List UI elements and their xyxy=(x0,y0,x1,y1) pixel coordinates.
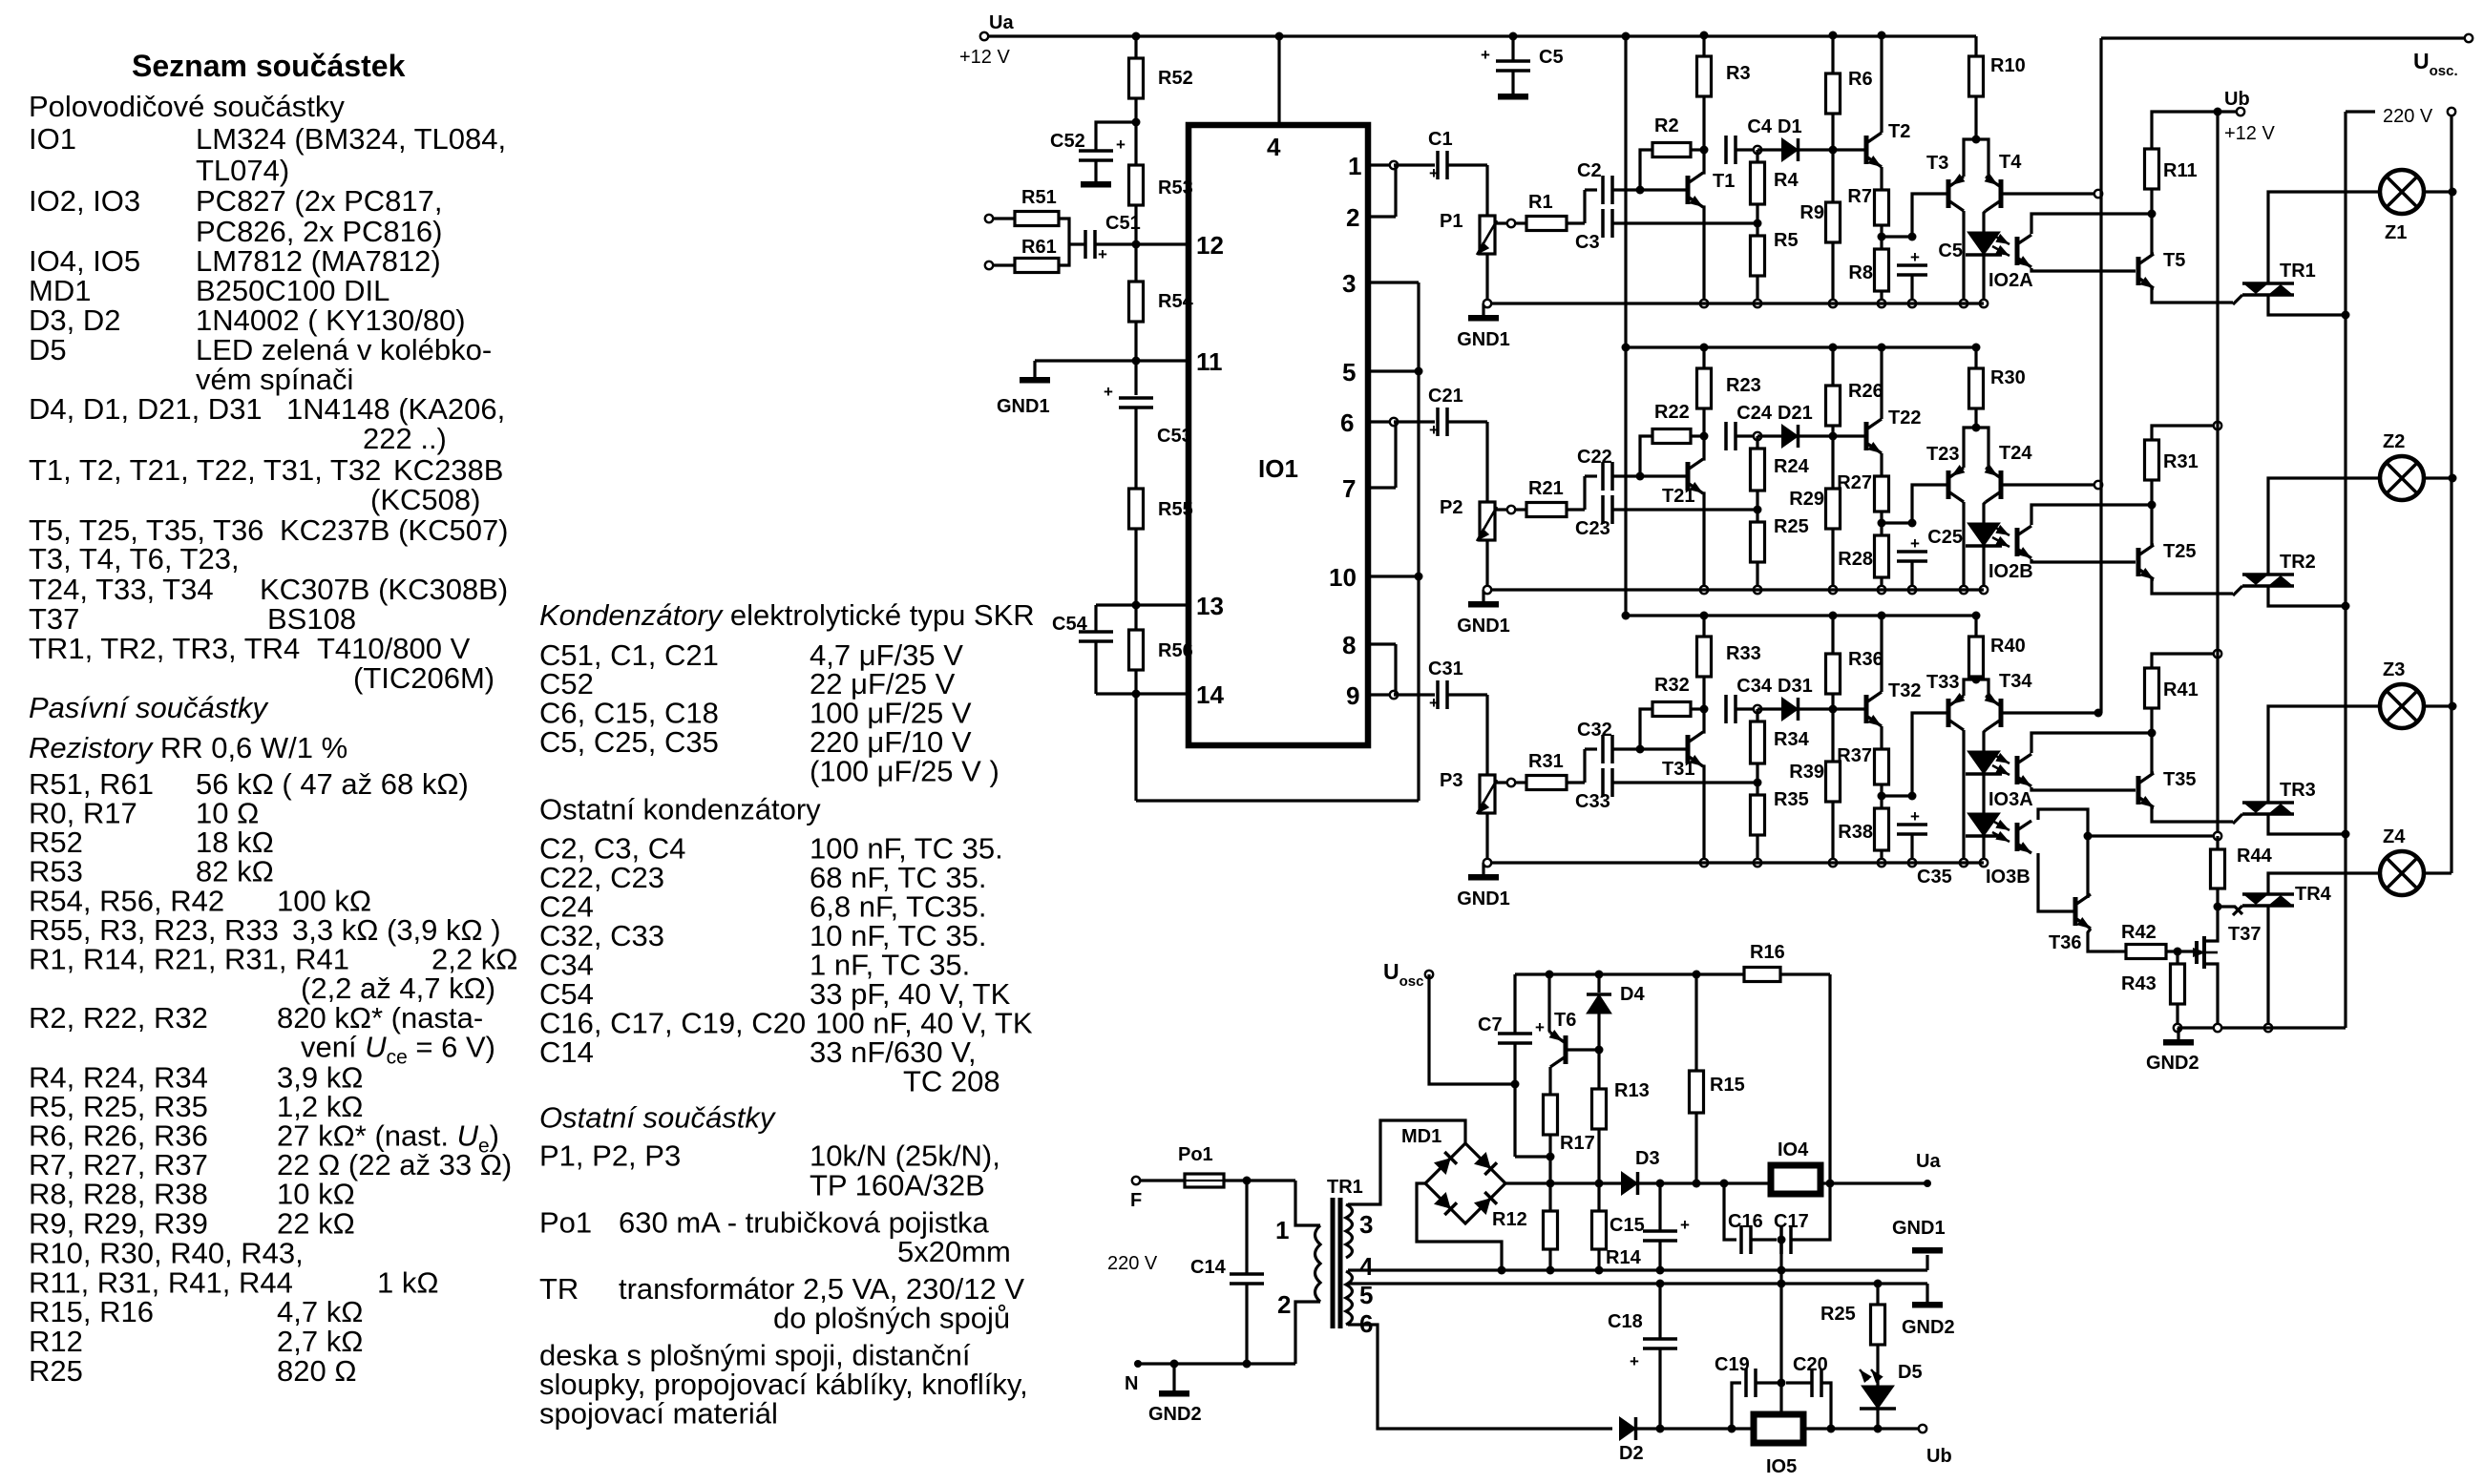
resistor R31 xyxy=(1507,779,1515,786)
svg-text:10k/N (25k/N),: 10k/N (25k/N), xyxy=(810,1139,1000,1173)
svg-text:T37: T37 xyxy=(29,602,79,636)
svg-text:+: + xyxy=(1429,694,1439,712)
terminal 220V xyxy=(2448,108,2455,115)
resistor R56 xyxy=(1129,630,1144,670)
svg-text:C22: C22 xyxy=(1577,447,1612,468)
resistor R43 xyxy=(2171,964,2185,1004)
svg-text:KC238B: KC238B xyxy=(393,453,503,487)
capacitor C33 xyxy=(1601,768,1605,797)
svg-text:Polovodičové součástky: Polovodičové součástky xyxy=(29,90,345,123)
svg-text:P1: P1 xyxy=(1440,211,1462,232)
triac TR2 xyxy=(2242,573,2294,576)
svg-text:GND1: GND1 xyxy=(1457,616,1510,637)
svg-text:C4: C4 xyxy=(1747,116,1772,137)
resistor R31 xyxy=(2145,440,2159,480)
wire triac top to lamp Z1 xyxy=(2268,192,2380,283)
wire right lamp bus xyxy=(2450,115,2452,873)
svg-text:14: 14 xyxy=(1196,680,1224,709)
svg-text:P1, P2, P3: P1, P2, P3 xyxy=(539,1139,681,1173)
transistor T3 xyxy=(1946,179,1951,208)
wire channel bottom rail ch2 xyxy=(1483,588,1984,591)
svg-text:T37: T37 xyxy=(2228,924,2261,945)
svg-text:C14: C14 xyxy=(539,1035,594,1069)
svg-text:Pasívní součástky: Pasívní součástky xyxy=(29,691,269,724)
resistor R30 xyxy=(1974,347,1977,368)
transistor T6 (PNP) xyxy=(1546,971,1554,979)
resistor R23 xyxy=(1702,347,1705,368)
capacitor C2 xyxy=(1583,190,1586,223)
capacitor C32 xyxy=(1583,749,1586,783)
svg-text:TR2: TR2 xyxy=(2280,552,2316,573)
capacitor C1 xyxy=(1436,151,1440,179)
svg-text:9: 9 xyxy=(1346,681,1359,710)
wire IO3B emitter to T36 base xyxy=(2038,853,2073,911)
wire lamp Z2 to right bus xyxy=(2424,476,2452,479)
wire secondary pin3 to MD1 xyxy=(1348,1120,1465,1204)
LED of optocoupler IO3B xyxy=(1967,813,2000,836)
svg-text:1N4148 (KA206,: 1N4148 (KA206, xyxy=(286,392,505,426)
resistor R35 xyxy=(1751,795,1765,835)
svg-text:BS108: BS108 xyxy=(267,602,356,636)
resistor R1 xyxy=(1507,219,1515,227)
svg-text:10 kΩ: 10 kΩ xyxy=(277,1178,355,1211)
svg-text:KC307B (KC308B): KC307B (KC308B) xyxy=(260,573,508,606)
svg-text:R17: R17 xyxy=(1560,1133,1595,1154)
svg-text:8: 8 xyxy=(1342,631,1356,659)
svg-text:T410/800 V: T410/800 V xyxy=(317,632,471,665)
resistor R2 xyxy=(1640,150,1652,190)
wire opto collector ch1 xyxy=(2031,214,2152,234)
svg-text:Ua: Ua xyxy=(989,12,1014,33)
svg-text:4: 4 xyxy=(1359,1252,1374,1281)
resistor R22 xyxy=(1640,436,1652,476)
svg-text:IO5: IO5 xyxy=(1766,1456,1797,1477)
transistor T21 xyxy=(1686,462,1691,491)
svg-text:4: 4 xyxy=(1267,133,1281,161)
capacitor C19 xyxy=(1732,1383,1741,1429)
LED of optocoupler IO3A xyxy=(1984,730,1986,752)
wire opto collector ch3 xyxy=(2031,733,2152,753)
lamp Z2 xyxy=(2380,456,2424,500)
wire C16/C17 center to GND1 xyxy=(1779,1240,1782,1284)
resistor R38 xyxy=(1875,808,1889,850)
wire T3 base ch3 xyxy=(1912,713,1946,796)
terminal F xyxy=(1132,1177,1140,1184)
wire IO3B collector xyxy=(2038,809,2088,898)
capacitor C23 xyxy=(1601,495,1605,524)
wire opto emitter ch3 xyxy=(2031,787,2136,790)
svg-text:10: 10 xyxy=(1329,563,1357,592)
svg-text:C35: C35 xyxy=(1917,867,1952,888)
resistor R41 xyxy=(2145,668,2159,708)
wire T22 collector xyxy=(1880,347,1883,419)
capacitor C53 xyxy=(1134,361,1137,395)
svg-text:D4: D4 xyxy=(1620,984,1645,1005)
resistor R26 xyxy=(1831,347,1834,386)
transformer TR1 core xyxy=(1331,1198,1336,1328)
svg-text:R15, R16: R15, R16 xyxy=(29,1295,154,1328)
svg-text:R55: R55 xyxy=(1158,499,1193,520)
svg-text:C31: C31 xyxy=(1428,658,1463,679)
resistor R14 xyxy=(1592,1211,1607,1249)
lamp Z4 xyxy=(2380,851,2424,895)
svg-text:R51: R51 xyxy=(1021,187,1057,208)
svg-text:R11: R11 xyxy=(2163,160,2198,181)
svg-text:C24: C24 xyxy=(1736,403,1773,424)
svg-text:C17: C17 xyxy=(1774,1211,1809,1232)
resistor R25 xyxy=(1751,522,1765,562)
wire MD1 minus loop xyxy=(1417,1183,1502,1270)
svg-text:T24: T24 xyxy=(1999,443,2032,464)
svg-text:+: + xyxy=(1910,248,1920,266)
svg-text:TR1: TR1 xyxy=(1327,1177,1363,1198)
svg-text:IO1: IO1 xyxy=(29,122,76,156)
svg-text:R41: R41 xyxy=(2163,679,2199,700)
capacitor C5 xyxy=(1882,235,1912,238)
svg-text:R28: R28 xyxy=(1838,549,1873,570)
terminal Ua output xyxy=(1924,1180,1931,1187)
resistor R39 xyxy=(1826,762,1841,802)
wire R40 junction xyxy=(1972,676,1981,684)
svg-text:D31: D31 xyxy=(1778,676,1813,697)
svg-text:2,7 kΩ: 2,7 kΩ xyxy=(277,1325,363,1358)
wire Ua top rail xyxy=(982,34,1976,37)
resistor R15 xyxy=(1693,971,1701,979)
resistor R12 xyxy=(1544,1211,1558,1249)
svg-text:Ostatní součástky: Ostatní součástky xyxy=(539,1101,777,1135)
svg-text:R14: R14 xyxy=(1606,1247,1642,1268)
resistor R8 xyxy=(1875,249,1889,291)
svg-text:4,7 kΩ: 4,7 kΩ xyxy=(277,1295,363,1328)
svg-text:C18: C18 xyxy=(1608,1311,1643,1332)
svg-text:3: 3 xyxy=(1359,1210,1373,1239)
resistor R13 xyxy=(1592,1089,1607,1129)
wire C32 to base xyxy=(1612,747,1686,750)
wire triac top to lamp Z3 xyxy=(2268,706,2380,803)
transistor T25 xyxy=(2136,548,2141,576)
svg-text:IO2B: IO2B xyxy=(1989,561,2033,582)
svg-text:R12: R12 xyxy=(1492,1209,1527,1230)
svg-text:D3, D2: D3, D2 xyxy=(29,303,120,337)
svg-text:C5: C5 xyxy=(1938,240,1963,261)
svg-text:T22: T22 xyxy=(1888,408,1921,428)
svg-text:IO3A: IO3A xyxy=(1989,789,2033,810)
wire channel bottom rail ch1 xyxy=(1483,302,1984,304)
wire T6 collector xyxy=(1548,1067,1551,1095)
resistor R34 xyxy=(1756,709,1758,721)
svg-text:GND2: GND2 xyxy=(2146,1053,2199,1074)
svg-text:R3: R3 xyxy=(1726,63,1751,84)
wire T5 emitter to triac gate xyxy=(2152,288,2233,303)
resistor R44 xyxy=(2214,832,2221,840)
svg-text:11: 11 xyxy=(1196,347,1223,376)
svg-text:R34: R34 xyxy=(1774,729,1810,750)
svg-text:13: 13 xyxy=(1196,592,1224,620)
wire C33 to divider xyxy=(1612,781,1757,784)
svg-text:+: + xyxy=(1535,1018,1545,1036)
svg-text:R5: R5 xyxy=(1774,230,1799,251)
triac TR1 xyxy=(2242,282,2294,285)
svg-text:KC237B (KC507): KC237B (KC507) xyxy=(280,513,509,547)
resistor R32 xyxy=(1640,709,1652,749)
LED of optocoupler IO2B xyxy=(1984,502,1986,524)
wire MD1 plus to Ua rail xyxy=(1505,1181,1621,1184)
svg-text:LED zelená v kolébko-: LED zelená v kolébko- xyxy=(196,333,492,366)
wire pin out ch1 xyxy=(1368,163,1394,166)
LED of optocoupler IO2A xyxy=(1984,211,1986,233)
resistor R29 xyxy=(1826,489,1841,529)
svg-text:vém spínači: vém spínači xyxy=(196,363,353,396)
wire T36 emitter to R42 xyxy=(2088,929,2115,951)
wire C2 to base xyxy=(1612,188,1686,191)
svg-text:MD1: MD1 xyxy=(29,274,91,307)
wire Ub output line xyxy=(1635,1427,1923,1430)
svg-text:R39: R39 xyxy=(1789,762,1824,783)
wire N input xyxy=(1138,1362,1295,1365)
capacitor C15 xyxy=(1658,1183,1661,1231)
svg-text:R30: R30 xyxy=(1990,367,2026,388)
svg-text:R16: R16 xyxy=(1750,942,1785,963)
svg-text:GND2: GND2 xyxy=(1148,1404,1202,1425)
svg-text:Po1: Po1 xyxy=(539,1206,592,1240)
resistor R9 xyxy=(1826,202,1841,242)
fuse Po1 xyxy=(1140,1179,1185,1181)
svg-text:P2: P2 xyxy=(1440,497,1462,518)
svg-text:R56: R56 xyxy=(1158,640,1193,661)
svg-text:LM324 (BM324, TL084,: LM324 (BM324, TL084, xyxy=(196,122,506,156)
resistor R3 xyxy=(1702,35,1705,56)
svg-text:R9: R9 xyxy=(1799,202,1824,223)
svg-text:IO2A: IO2A xyxy=(1989,270,2033,291)
ground GND2 at N xyxy=(1170,1360,1179,1369)
svg-text:222 ..): 222 ..) xyxy=(363,422,447,455)
svg-text:C1: C1 xyxy=(1428,129,1453,150)
svg-text:Z1: Z1 xyxy=(2385,222,2407,243)
transistor T2 xyxy=(1833,148,1864,151)
svg-text:R42: R42 xyxy=(2121,922,2157,943)
svg-text:Z2: Z2 xyxy=(2383,431,2405,452)
svg-text:C53: C53 xyxy=(1157,426,1192,447)
resistor R10 xyxy=(1974,36,1977,56)
svg-text:82 kΩ: 82 kΩ xyxy=(196,855,274,888)
svg-text:(100 μF/25 V ): (100 μF/25 V ) xyxy=(810,755,1000,788)
svg-text:PC827 (2x PC817,: PC827 (2x PC817, xyxy=(196,184,442,218)
wire R31 top to Ub bus xyxy=(2152,426,2218,440)
svg-text:R21: R21 xyxy=(1528,478,1564,499)
svg-text:T5: T5 xyxy=(2163,250,2185,271)
wire T4 base to Uosc bus ch3 xyxy=(2001,711,2098,714)
svg-text:R31: R31 xyxy=(1528,751,1564,772)
resistor R28 xyxy=(1875,535,1889,577)
svg-text:R54: R54 xyxy=(1158,291,1194,312)
wire T25 emitter to triac gate xyxy=(2152,579,2233,594)
svg-text:TR3: TR3 xyxy=(2280,780,2316,801)
wire C23 to divider xyxy=(1612,508,1757,511)
svg-text:C25: C25 xyxy=(1927,527,1963,548)
optocoupler IO2A xyxy=(2015,237,2020,265)
svg-text:T32: T32 xyxy=(1888,680,1921,701)
svg-text:+: + xyxy=(1098,245,1107,263)
wire T6 base to D4 xyxy=(1566,1048,1599,1051)
terminal Uosc bottom xyxy=(1425,971,1433,978)
svg-text:T34: T34 xyxy=(1999,671,2032,692)
capacitor C18 xyxy=(1656,1280,1665,1288)
wire pin out 2 ch3 xyxy=(1368,642,1396,645)
svg-text:Ub: Ub xyxy=(1926,1446,1952,1467)
ground GND2 PSU xyxy=(1925,1284,1928,1302)
wire C7 bottom to R17 xyxy=(1515,1155,1550,1158)
svg-text:R1: R1 xyxy=(1528,192,1553,213)
potentiometer P2 xyxy=(1480,502,1495,540)
svg-text:R26: R26 xyxy=(1848,381,1883,402)
wire triac top to lamp Z2 xyxy=(2268,478,2380,575)
voltage regulator IO4 xyxy=(1771,1165,1820,1194)
svg-text:R2, R22, R32: R2, R22, R32 xyxy=(29,1001,208,1035)
svg-text:P3: P3 xyxy=(1440,770,1462,791)
svg-text:R53: R53 xyxy=(29,855,83,888)
svg-text:C7: C7 xyxy=(1478,1014,1503,1035)
svg-text:+12 V: +12 V xyxy=(2224,123,2275,144)
resistor R11 xyxy=(2145,149,2159,189)
svg-text:B250C100 DIL: B250C100 DIL xyxy=(196,274,389,307)
svg-text:Z3: Z3 xyxy=(2383,659,2405,680)
triac TR3 xyxy=(2242,801,2294,805)
triac TR4 xyxy=(2218,907,2242,914)
svg-text:C52: C52 xyxy=(1050,131,1085,152)
svg-text:T3, T4, T6, T23,: T3, T4, T6, T23, xyxy=(29,542,240,575)
terminal Ub xyxy=(2237,108,2244,115)
svg-text:6: 6 xyxy=(1340,408,1354,437)
wire secondary pin4 GND1 rail xyxy=(1348,1268,1927,1271)
wire lamp Z3 to right bus xyxy=(2424,704,2452,707)
wire R44 top to Ub bus xyxy=(2088,834,2213,837)
svg-text:GND1: GND1 xyxy=(1457,329,1510,350)
svg-text:C23: C23 xyxy=(1575,518,1610,539)
svg-text:PC826, 2x PC816): PC826, 2x PC816) xyxy=(196,215,442,248)
svg-text:R31: R31 xyxy=(2163,451,2199,472)
svg-text:T1: T1 xyxy=(1713,171,1735,192)
svg-text:2: 2 xyxy=(1277,1290,1291,1319)
capacitor C3 xyxy=(1601,209,1605,238)
wire TR4 top to Z4 xyxy=(2268,873,2380,894)
svg-text:R10: R10 xyxy=(1990,55,2026,76)
wire pin14 to bottom xyxy=(1132,690,1141,699)
svg-text:+: + xyxy=(1910,807,1920,826)
wire pin out 2 ch2 xyxy=(1368,486,1396,489)
svg-text:R44: R44 xyxy=(2237,846,2273,867)
capacitor C54 xyxy=(1079,630,1113,634)
svg-text:R24: R24 xyxy=(1774,456,1810,477)
wire C3 to divider xyxy=(1612,221,1757,224)
svg-text:N: N xyxy=(1125,1373,1138,1394)
capacitor C17 xyxy=(1751,1238,1777,1241)
diode D4 xyxy=(1595,971,1604,979)
resistor R51 xyxy=(1015,212,1059,226)
wire opto collector ch2 xyxy=(2031,505,2152,525)
ground GND1 xyxy=(1020,377,1050,384)
wire R16 right down xyxy=(1828,974,1831,1235)
svg-text:1: 1 xyxy=(1348,152,1361,180)
capacitor C4 xyxy=(1724,136,1728,164)
svg-text:+12 V: +12 V xyxy=(959,47,1010,68)
svg-text:R61: R61 xyxy=(1021,237,1057,258)
svg-text:D2: D2 xyxy=(1619,1443,1644,1464)
wire T3 emitter down ch2 xyxy=(1962,502,1965,590)
wire Z4 to right bus xyxy=(2424,871,2451,874)
transistor T31 xyxy=(1686,735,1691,763)
svg-text:220 V: 220 V xyxy=(1107,1253,1158,1274)
wire rails to IO4 xyxy=(1693,1180,1701,1188)
transistor T36 xyxy=(2073,897,2078,926)
svg-text:TR1: TR1 xyxy=(2280,261,2316,282)
diode D21 xyxy=(1757,434,1781,437)
wire T3 base ch2 xyxy=(1912,485,1946,523)
svg-text:R4: R4 xyxy=(1774,170,1799,191)
wire R41 top to Ub bus xyxy=(2152,654,2218,668)
svg-text:R13: R13 xyxy=(1614,1080,1650,1101)
resistor R5 xyxy=(1751,236,1765,276)
wire TR4 bottom xyxy=(2266,906,2269,1028)
resistor R40 xyxy=(1974,616,1977,637)
svg-text:(2,2 až 4,7 kΩ): (2,2 až 4,7 kΩ) xyxy=(301,972,495,1005)
svg-text:TL074): TL074) xyxy=(196,154,289,187)
wire Uosc to C7 node xyxy=(1429,974,1515,1084)
svg-text:D5: D5 xyxy=(1898,1362,1923,1383)
svg-text:Ub: Ub xyxy=(2224,89,2250,110)
svg-text:F: F xyxy=(1130,1190,1142,1211)
wire channel bottom rail ch3 xyxy=(1483,861,1984,864)
svg-text:Z4: Z4 xyxy=(2383,826,2406,847)
svg-text:C20: C20 xyxy=(1793,1354,1828,1375)
svg-text:1N4002 ( KY130/80): 1N4002 ( KY130/80) xyxy=(196,303,466,337)
capacitor C21 xyxy=(1436,408,1440,436)
wire T4 base to Uosc bus ch1 xyxy=(2001,192,2098,195)
svg-text:do plošných spojů: do plošných spojů xyxy=(773,1302,1010,1335)
svg-text:spojovací materiál: spojovací materiál xyxy=(539,1397,778,1431)
wire triac bottom ch2 xyxy=(2268,586,2346,606)
svg-text:T23: T23 xyxy=(1926,444,1959,465)
svg-text:TR1, TR2, TR3, TR4: TR1, TR2, TR3, TR4 xyxy=(29,632,300,665)
wire pin out 2 ch1 xyxy=(1368,215,1396,218)
svg-text:C51: C51 xyxy=(1105,213,1141,234)
svg-text:R27: R27 xyxy=(1837,472,1872,493)
capacitor C22 xyxy=(1583,476,1586,510)
svg-text:D21: D21 xyxy=(1778,403,1813,424)
wire T4 base to Uosc bus ch2 xyxy=(2001,483,2098,486)
svg-text:GND1: GND1 xyxy=(1457,888,1510,909)
svg-text:T36: T36 xyxy=(2049,932,2081,953)
wire pin4 xyxy=(1277,36,1280,125)
svg-text:820 Ω: 820 Ω xyxy=(277,1354,357,1388)
wire pin out ch2 xyxy=(1368,420,1394,423)
potentiometer P1 xyxy=(1480,216,1495,254)
terminal Uosc top xyxy=(2465,34,2472,42)
resistor R36 xyxy=(1831,616,1834,654)
wire T3 emitter down ch1 xyxy=(1962,211,1965,303)
wire pin out ch3 xyxy=(1368,693,1394,696)
transistor T34 xyxy=(1999,699,2004,727)
svg-text:12: 12 xyxy=(1196,231,1224,260)
svg-text:C21: C21 xyxy=(1428,386,1463,407)
svg-text:TP 160A/32B: TP 160A/32B xyxy=(810,1169,985,1202)
resistor R54 xyxy=(1129,282,1144,322)
svg-text:+: + xyxy=(1429,164,1439,182)
svg-text:+: + xyxy=(1680,1216,1690,1234)
svg-text:IO3B: IO3B xyxy=(1986,867,2031,888)
resistor R55 xyxy=(1129,489,1144,529)
svg-text:R40: R40 xyxy=(1990,636,2026,657)
wire lamp Z1 to right bus xyxy=(2424,190,2452,193)
